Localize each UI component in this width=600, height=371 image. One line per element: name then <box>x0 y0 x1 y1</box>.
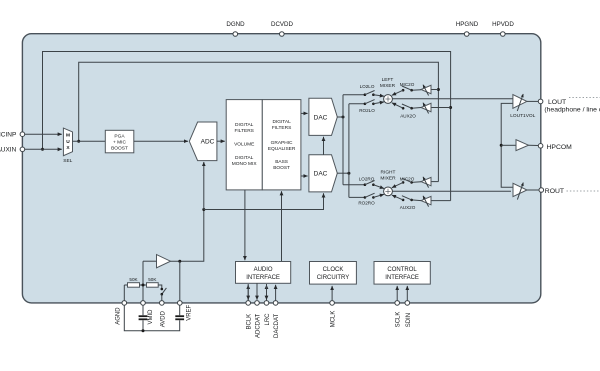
pin DCVDD <box>271 21 294 36</box>
wire MUX output to PGA <box>73 140 106 142</box>
wire reference to ADC <box>203 162 205 210</box>
wire AGND external <box>124 305 179 331</box>
svg-text:HPCOM: HPCOM <box>547 144 573 151</box>
wire ROUT to pin <box>527 189 539 191</box>
converter ADC <box>189 122 217 161</box>
wire VREF external <box>179 305 181 315</box>
wire AUXIN to MUX <box>25 148 62 150</box>
wire reference to DAC right <box>204 193 324 209</box>
svg-text:BOOST: BOOST <box>111 145 128 151</box>
node VREF tap <box>178 260 181 263</box>
capacitor VREF <box>175 315 184 320</box>
svg-text:DACDAT: DACDAT <box>274 313 280 338</box>
svg-text:50K: 50K <box>148 277 157 282</box>
wire audio interface to filters <box>281 191 283 283</box>
svg-text:DIGITAL: DIGITAL <box>235 155 254 161</box>
wire DACDAT in <box>275 285 277 302</box>
switch RO2RO <box>349 193 384 205</box>
node VMID divider <box>142 284 145 287</box>
switch LO2LO <box>343 84 384 96</box>
wire mic bypass loop <box>79 62 439 181</box>
svg-text:GRAPHIC: GRAPHIC <box>271 140 293 146</box>
block DAC digital filters <box>262 100 301 190</box>
svg-text:50K: 50K <box>129 277 138 282</box>
wire reference to DAC left <box>323 137 325 155</box>
node aux bypass at AUXIN <box>41 148 44 151</box>
svg-text:AUDIO: AUDIO <box>254 267 273 273</box>
node aux bypass to left AUX2O <box>449 106 452 109</box>
pin AVDD <box>160 301 167 328</box>
wire aux bypass loop <box>43 52 451 201</box>
pin DGND <box>226 21 245 36</box>
wire buffer output <box>171 210 204 262</box>
wire DAC left distribution <box>342 95 344 185</box>
wire filters to DAC right <box>301 175 308 177</box>
pin ADCDAT <box>255 301 262 338</box>
svg-text:DIGITAL: DIGITAL <box>235 122 254 128</box>
svg-text:DAC: DAC <box>314 171 328 178</box>
svg-text:AGND: AGND <box>115 307 121 325</box>
svg-text:INTERFACE: INTERFACE <box>385 275 419 281</box>
svg-text:PGA: PGA <box>114 133 125 139</box>
block CONTROL INTERFACE <box>374 262 430 285</box>
wire HPCOM input <box>501 144 516 146</box>
wire LOUT1VOL to pin <box>527 100 538 102</box>
pin AGND <box>115 301 126 325</box>
wire BCLK bidirectional <box>247 284 249 302</box>
amplifier MIC2O right <box>392 176 439 187</box>
wire filters to DAC left <box>301 112 308 114</box>
mux SEL <box>63 128 72 164</box>
wire VMID external <box>142 305 144 315</box>
node DAC left output <box>342 116 345 119</box>
block AUDIO INTERFACE <box>236 262 291 284</box>
node mic bypass at MUX output <box>77 140 80 143</box>
amplifier VMID buffer <box>157 255 171 268</box>
svg-text:ADC: ADC <box>201 139 215 146</box>
wire LOUT dotted leader <box>569 97 600 99</box>
svg-text:RIGHT: RIGHT <box>381 170 396 176</box>
capacitor VMID <box>139 315 148 331</box>
svg-text:LO2RO: LO2RO <box>359 177 375 182</box>
svg-text:VOLUME: VOLUME <box>234 142 254 148</box>
wire VREF drop <box>179 261 181 303</box>
summer right mixer <box>384 187 393 196</box>
svg-text:VREF: VREF <box>186 304 192 320</box>
pin VMID <box>141 301 154 325</box>
svg-text:LEFT: LEFT <box>382 77 394 83</box>
svg-text:AUX2O: AUX2O <box>400 114 416 119</box>
svg-text:DAC: DAC <box>314 114 328 121</box>
switch AUX2O left amplifier <box>392 103 451 119</box>
pin VREF <box>178 301 193 321</box>
block ADC digital filters <box>226 100 262 190</box>
svg-text:DIGITAL: DIGITAL <box>272 119 291 125</box>
svg-text:SCLK: SCLK <box>396 312 402 328</box>
switch VMID enable <box>161 288 167 303</box>
svg-text:MONO MIX: MONO MIX <box>232 161 258 167</box>
pin BCLK <box>246 301 253 330</box>
svg-text:HPVDD: HPVDD <box>492 21 514 28</box>
svg-text:U: U <box>66 139 70 145</box>
svg-text:(headphone / line output): (headphone / line output) <box>544 106 600 113</box>
summer left mixer <box>384 95 393 104</box>
svg-text:MIXER: MIXER <box>380 175 396 181</box>
svg-text:SDIN: SDIN <box>406 313 412 327</box>
resistor 50K left <box>124 277 139 303</box>
svg-text:EQUALISER: EQUALISER <box>268 146 296 152</box>
svg-text:CLOCK: CLOCK <box>323 267 344 273</box>
pin ROUT <box>539 188 564 195</box>
wire LRC bidirectional <box>266 284 268 302</box>
wire SCLK in <box>396 286 398 302</box>
svg-text:BOOST: BOOST <box>273 165 290 171</box>
wire VMID to buffer <box>143 260 157 262</box>
codec block outline <box>22 34 540 303</box>
svg-text:CIRCUITRY: CIRCUITRY <box>317 275 350 281</box>
wire ROUT dotted leader <box>567 190 600 192</box>
wire MICINP to MUX <box>25 133 62 135</box>
wire SDIN in <box>406 286 408 302</box>
svg-text:FILTERS: FILTERS <box>272 125 291 131</box>
amplifier LOUT1VOL <box>510 94 535 119</box>
wire PGA to ADC <box>134 140 188 142</box>
pin LRC <box>264 301 271 326</box>
wire VMID riser <box>142 261 144 303</box>
pin DACDAT <box>273 301 280 338</box>
wire filters to audio interface <box>244 190 246 260</box>
svg-text:HPGND: HPGND <box>456 21 479 28</box>
wire left mixer output <box>392 98 513 100</box>
amplifier PGA + MIC BOOST <box>105 130 134 153</box>
wire ADC to digital filters <box>217 140 225 142</box>
block CLOCK CIRCUITRY <box>310 262 357 285</box>
svg-text:BASS: BASS <box>275 159 288 165</box>
pin MICINP <box>0 132 25 139</box>
switch LO2RO <box>343 177 384 189</box>
svg-text:SEL: SEL <box>63 158 72 164</box>
svg-text:MCLK: MCLK <box>331 311 337 328</box>
switch RO2LO <box>349 100 384 113</box>
left mixer label <box>380 77 396 89</box>
svg-text:RO2LO: RO2LO <box>359 108 375 113</box>
svg-text:CONTROL: CONTROL <box>387 267 417 273</box>
svg-text:BCLK: BCLK <box>247 314 253 330</box>
wire DAC left output <box>337 116 343 118</box>
converter DAC left <box>309 98 337 135</box>
svg-text:LO2LO: LO2LO <box>360 84 375 89</box>
pin HPGND <box>456 21 479 36</box>
svg-text:LOUT: LOUT <box>548 99 566 106</box>
svg-text:MICINP: MICINP <box>0 132 16 139</box>
wire DAC right distribution <box>348 104 350 198</box>
wire output common node <box>501 103 513 187</box>
svg-text:AUX2O: AUX2O <box>400 205 416 210</box>
svg-text:FILTERS: FILTERS <box>235 128 254 134</box>
amplifier HPCOM buffer <box>516 140 529 151</box>
wire MCLK in <box>331 286 333 302</box>
svg-text:ROUT: ROUT <box>545 188 564 195</box>
node DAC right output <box>347 172 350 175</box>
svg-text:VMID: VMID <box>148 309 154 325</box>
wire DAC right output <box>337 172 349 174</box>
pin SCLK <box>395 301 402 328</box>
wire VMID node <box>140 284 147 286</box>
node mic bypass to left MIC2O <box>437 88 440 91</box>
wire ADCDAT out <box>256 283 258 300</box>
node external ground <box>142 329 145 332</box>
node HPCOM tap <box>500 144 503 147</box>
converter DAC right <box>309 155 337 192</box>
node reference junction <box>202 208 205 211</box>
pin LOUT <box>538 99 600 114</box>
svg-text:INTERFACE: INTERFACE <box>246 275 280 281</box>
svg-text:DGND: DGND <box>226 21 245 28</box>
pin MCLK <box>330 301 337 328</box>
pin SDIN <box>405 301 412 328</box>
svg-text:LOUT1VOL: LOUT1VOL <box>510 113 535 119</box>
svg-text:ADCDAT: ADCDAT <box>256 313 262 338</box>
pin HPVDD <box>492 21 514 36</box>
right mixer label <box>380 170 396 182</box>
svg-text:LRC: LRC <box>265 313 271 326</box>
svg-text:MIXER: MIXER <box>380 83 396 89</box>
svg-text:M: M <box>66 133 70 139</box>
resistor 50K right <box>147 277 162 288</box>
switch AUX2O right amplifier <box>392 195 451 210</box>
svg-text:AUXIN: AUXIN <box>0 147 17 154</box>
svg-text:AVDD: AVDD <box>160 310 166 327</box>
svg-text:DCVDD: DCVDD <box>271 21 294 28</box>
amplifier ROUT volume <box>513 183 527 200</box>
pin HPCOM <box>538 144 572 151</box>
wire right mixer output <box>392 190 511 192</box>
amplifier MIC2O left <box>392 82 439 96</box>
wire HPCOM to pin <box>529 144 539 146</box>
svg-text:RO2RO: RO2RO <box>358 200 375 205</box>
pin AUXIN <box>0 147 25 154</box>
svg-text:+ MIC: + MIC <box>113 139 126 145</box>
